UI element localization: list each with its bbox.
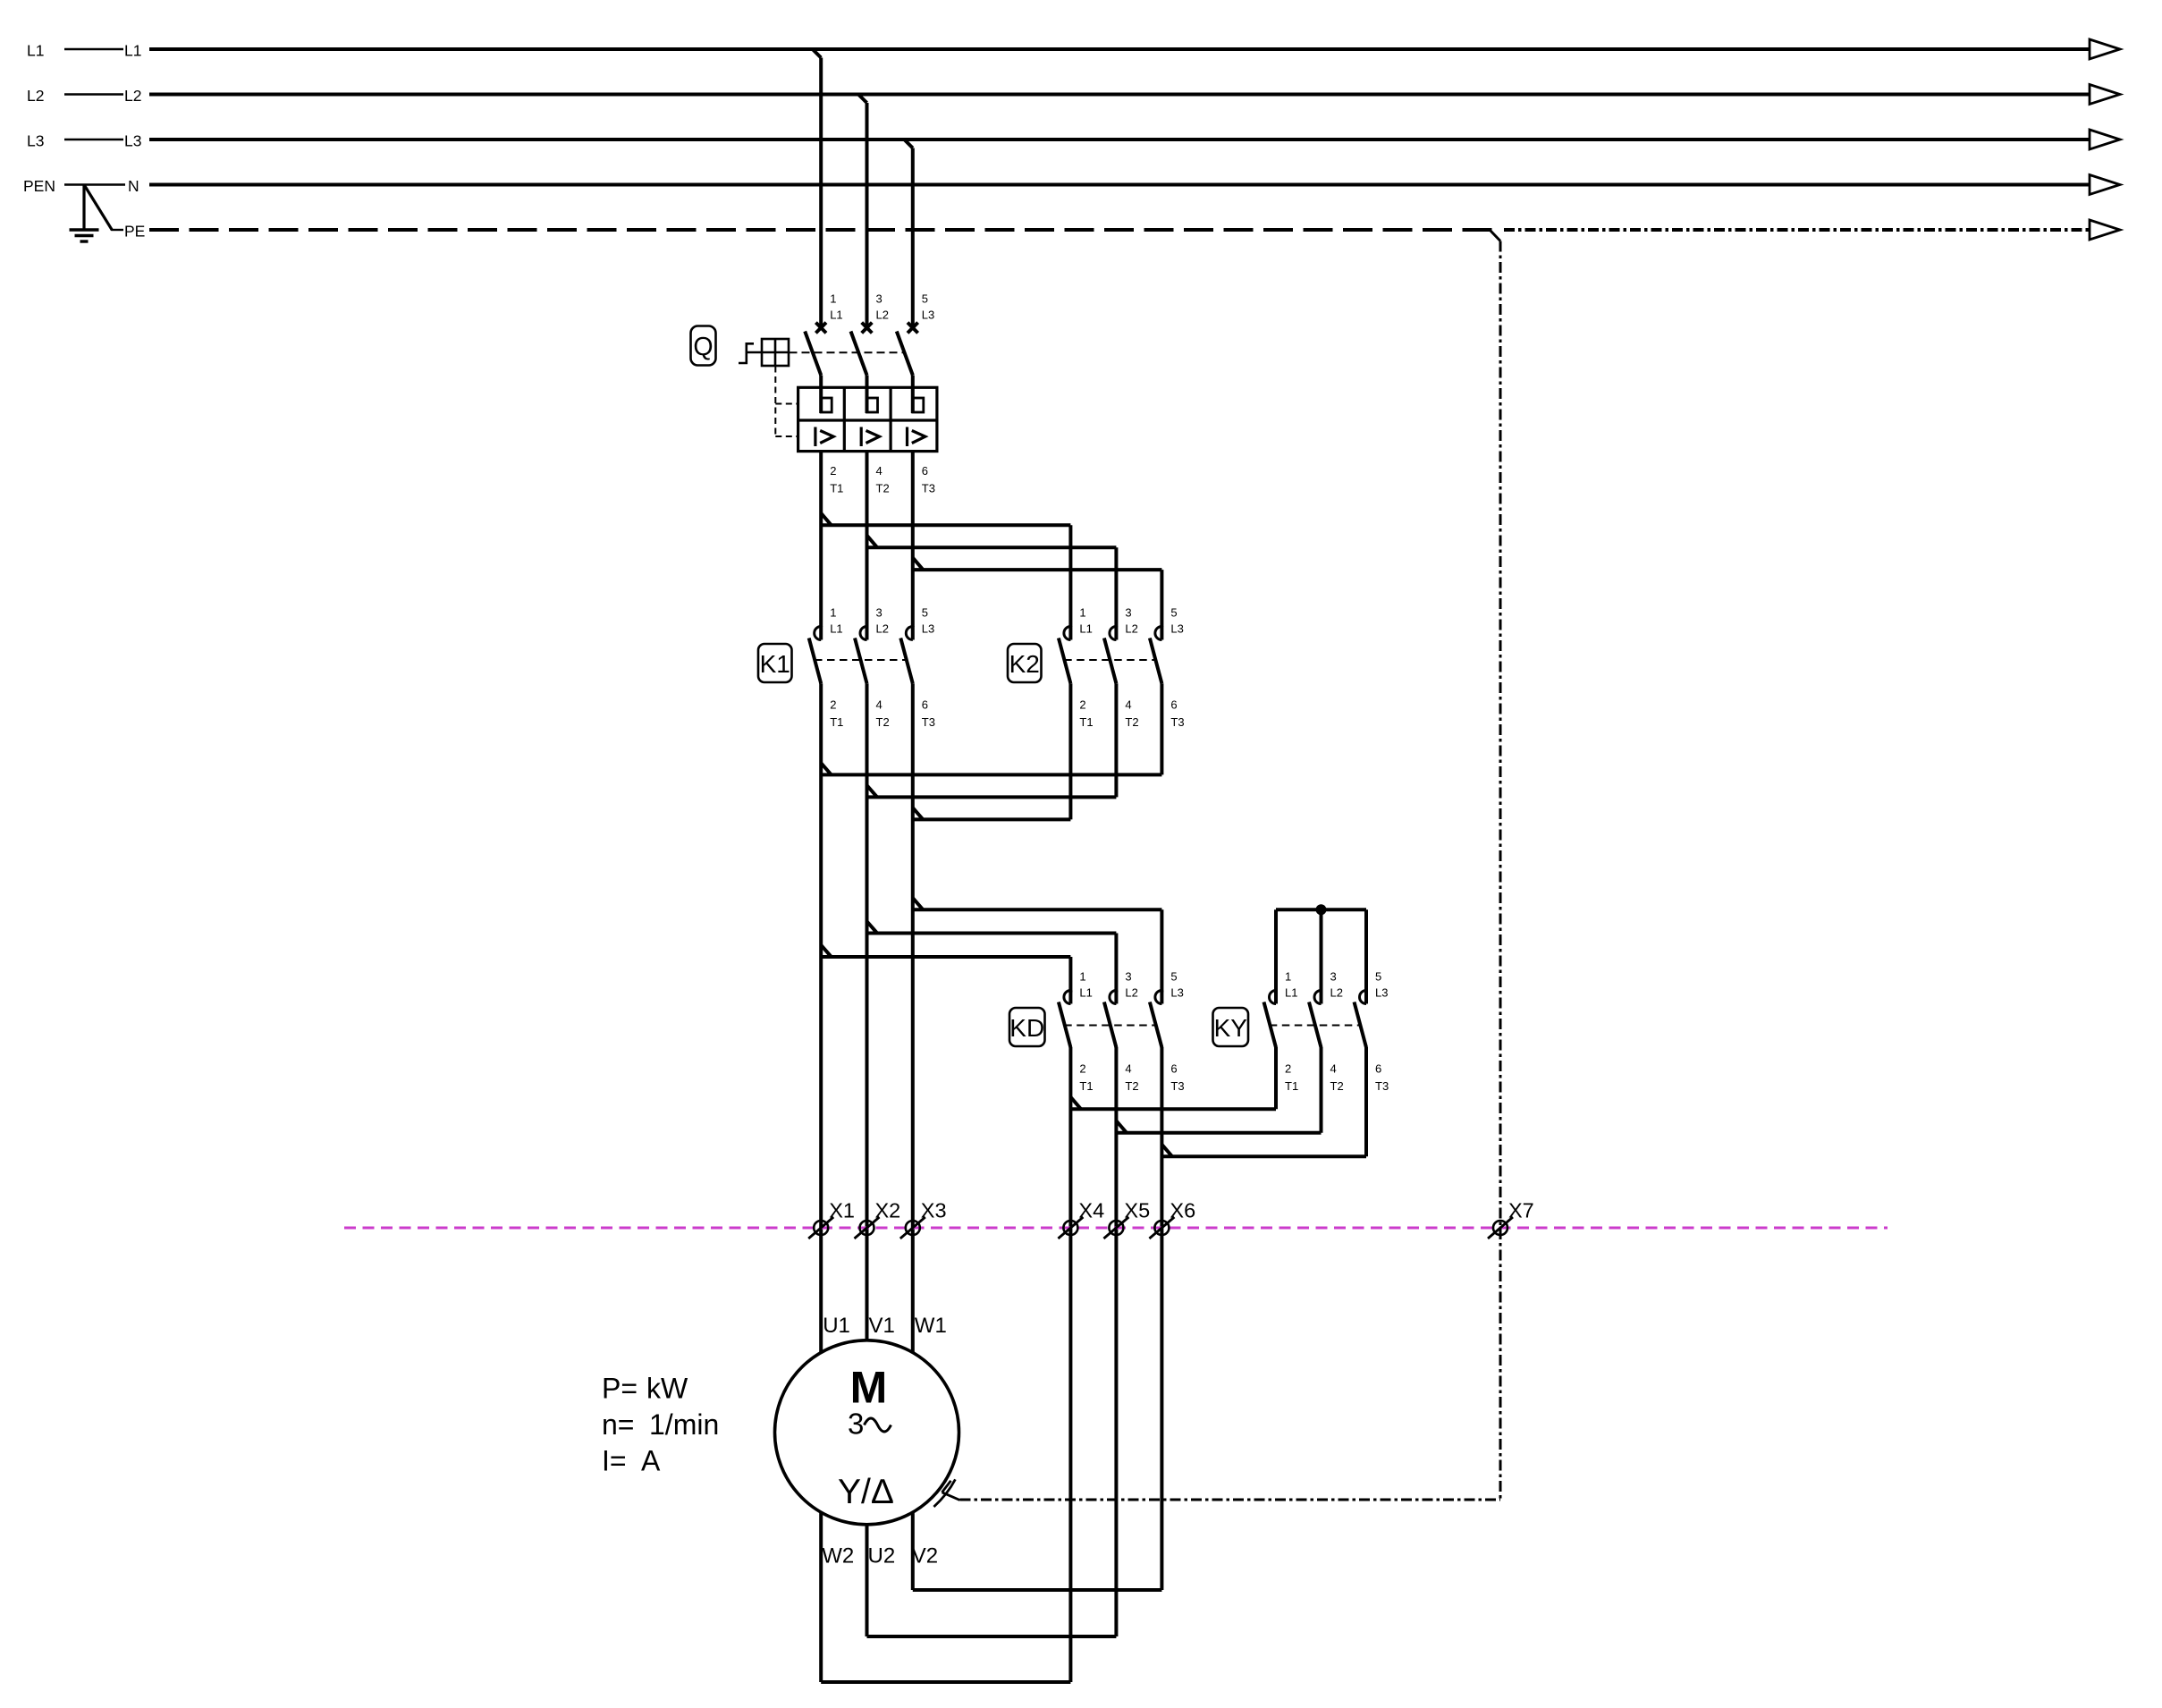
motor terminal labels bottom: [822, 1544, 938, 1568]
svg-text:1: 1: [1079, 606, 1085, 620]
svg-text:4: 4: [1330, 1062, 1337, 1076]
svg-text:3: 3: [1125, 970, 1131, 984]
svg-text:L2: L2: [1125, 986, 1137, 1000]
svg-text:T3: T3: [922, 715, 935, 729]
wire motor W2 to X4: [821, 1512, 1070, 1682]
svg-text:T1: T1: [830, 482, 843, 495]
svg-text:L1: L1: [830, 309, 842, 322]
svg-text:6: 6: [1170, 1062, 1177, 1076]
svg-text:T2: T2: [1125, 715, 1138, 729]
KY linkage (dashed): [1270, 1025, 1361, 1027]
wire Q T1 output down to K1: [819, 452, 823, 627]
svg-text:L1: L1: [124, 42, 141, 60]
svg-text:3: 3: [876, 292, 883, 306]
K1 pole 3 contact: [900, 606, 935, 730]
svg-text:6: 6: [1170, 698, 1177, 712]
svg-text:T3: T3: [1170, 1079, 1184, 1093]
terminal X4: [1058, 1199, 1104, 1239]
svg-text:4: 4: [876, 698, 883, 712]
terminal X1: [808, 1199, 855, 1239]
wire KD T2 down to X5: [1114, 1047, 1118, 1636]
KD pole 3 contact: [1150, 970, 1185, 1094]
svg-text:T1: T1: [1079, 1079, 1093, 1093]
KD pole 1 contact: [1059, 970, 1094, 1094]
svg-text:3: 3: [1330, 970, 1337, 984]
wire K1 T2 down (motor V1 feed): [866, 683, 869, 1340]
wire branch to K2 L1: [821, 513, 1070, 627]
svg-text:T3: T3: [922, 482, 935, 495]
wire branch phase 2 to KD L2: [867, 921, 1117, 992]
KY pole 2 contact: [1309, 970, 1344, 1094]
svg-text:T2: T2: [876, 715, 890, 729]
svg-text:L3: L3: [1170, 622, 1183, 636]
Q magnetic trip I> pole 2: [861, 427, 879, 447]
wire K1 T2 to K2 output join: [867, 683, 1117, 797]
Q pole L2 switch contact: [851, 292, 890, 495]
svg-text:2: 2: [1079, 1062, 1085, 1076]
svg-text:KY: KY: [1214, 1014, 1248, 1042]
svg-text:T1: T1: [1079, 715, 1093, 729]
KY pole 3 contact: [1355, 970, 1389, 1094]
wire PE to motor frame (dash-dot): [960, 1499, 1501, 1501]
svg-text:Y/Δ: Y/Δ: [838, 1473, 894, 1511]
svg-text:1: 1: [830, 292, 836, 306]
svg-text:n=: n=: [602, 1408, 634, 1441]
svg-text:L1: L1: [1079, 622, 1092, 636]
svg-text:6: 6: [922, 464, 928, 478]
svg-text:L1: L1: [27, 42, 44, 60]
motor frame earth connection: [933, 1479, 959, 1507]
wire K1 T3 to K2 output join: [913, 683, 1071, 819]
svg-text:T1: T1: [830, 715, 843, 729]
contactor K2 label: [1008, 644, 1042, 682]
svg-text:5: 5: [922, 292, 928, 306]
svg-text:3: 3: [1125, 606, 1131, 620]
svg-text:L2: L2: [1330, 986, 1343, 1000]
wire L3 rail: [27, 130, 2120, 150]
KD linkage (dashed): [1064, 1025, 1156, 1027]
wire K1 T1 to K2 output join: [821, 683, 1161, 774]
svg-text:kW: kW: [646, 1373, 688, 1405]
wire L3 drop to Q: [904, 140, 913, 328]
KY pole 1 contact: [1264, 970, 1299, 1094]
Q magnetic trip I> pole 1: [815, 427, 833, 447]
K2 pole 1 contact: [1059, 606, 1094, 730]
svg-text:6: 6: [922, 698, 928, 712]
svg-text:L1: L1: [830, 622, 842, 636]
svg-text:P=: P=: [602, 1373, 638, 1405]
svg-text:KD: KD: [1009, 1014, 1044, 1042]
svg-text:U2: U2: [868, 1544, 896, 1568]
svg-text:N: N: [128, 177, 139, 195]
Q thermal overload element pole 2: [867, 387, 878, 413]
wire KD T3 down to X6: [1160, 1047, 1163, 1590]
svg-text:Q: Q: [693, 333, 713, 361]
wire KD T1 down to X4: [1068, 1047, 1072, 1682]
Q mechanical linkage (dashed): [775, 352, 905, 436]
svg-text:2: 2: [830, 698, 836, 712]
svg-text:T3: T3: [1375, 1079, 1389, 1093]
svg-text:5: 5: [1375, 970, 1381, 984]
svg-text:L3: L3: [1170, 986, 1183, 1000]
wire K1 T1 down (motor U1 feed): [819, 683, 823, 1352]
K2 pole 3 contact: [1150, 606, 1185, 730]
wire PE branch to X7 (dash-dot): [1491, 231, 1500, 1500]
svg-text:T2: T2: [1330, 1079, 1344, 1093]
svg-text:L3: L3: [922, 309, 934, 322]
svg-text:A: A: [641, 1445, 661, 1477]
svg-text:L2: L2: [876, 309, 889, 322]
svg-text:V2: V2: [912, 1544, 938, 1568]
wire branch to K2 L2: [867, 536, 1117, 627]
Q overload/trip unit box: [798, 387, 937, 451]
svg-text:L2: L2: [876, 622, 889, 636]
K1 pole 1 contact: [809, 606, 844, 730]
svg-text:L2: L2: [1125, 622, 1137, 636]
svg-text:V1: V1: [869, 1314, 895, 1338]
svg-text:2: 2: [1079, 698, 1085, 712]
svg-text:T3: T3: [1170, 715, 1184, 729]
Q pole L3 switch contact: [897, 292, 935, 495]
svg-text:4: 4: [1125, 698, 1131, 712]
svg-text:K1: K1: [760, 650, 790, 678]
svg-text:2: 2: [830, 464, 836, 478]
svg-text:I=: I=: [602, 1445, 627, 1477]
svg-text:PEN: PEN: [23, 177, 55, 195]
wire branch phase 3 to KD L3: [913, 898, 1162, 992]
wire L2 rail: [27, 85, 2120, 106]
svg-text:U1: U1: [823, 1314, 850, 1338]
Q thermal overload element pole 3: [913, 387, 924, 413]
svg-text:T2: T2: [1125, 1079, 1138, 1093]
svg-text:W2: W2: [822, 1544, 854, 1568]
svg-text:3: 3: [848, 1408, 864, 1441]
wire L1 rail: [27, 39, 2120, 60]
terminal X2: [855, 1199, 901, 1239]
wire PE rail: [112, 220, 2120, 241]
wire branch to K2 L3: [913, 558, 1162, 627]
svg-text:5: 5: [922, 606, 928, 620]
svg-text:L3: L3: [1375, 986, 1388, 1000]
K2 linkage (dashed): [1064, 659, 1156, 661]
svg-text:L1: L1: [1285, 986, 1297, 1000]
KD pole 2 contact: [1104, 970, 1139, 1094]
terminal X6: [1149, 1199, 1195, 1239]
wire L1 drop to Q: [813, 49, 822, 328]
svg-text:PE: PE: [124, 223, 145, 241]
terminal X7: [1488, 1199, 1534, 1239]
motor rating text block: [602, 1373, 719, 1477]
Q magnetic trip I> pole 3: [908, 427, 925, 447]
svg-text:4: 4: [1125, 1062, 1131, 1076]
svg-text:L3: L3: [922, 622, 934, 636]
svg-text:1/min: 1/min: [649, 1408, 719, 1441]
svg-text:1: 1: [1079, 970, 1085, 984]
wire branch phase 1 to KD L1: [821, 945, 1070, 993]
svg-text:M: M: [850, 1363, 888, 1413]
svg-text:2: 2: [1285, 1062, 1291, 1076]
wire N rail: [23, 175, 2120, 196]
contactor KD label: [1009, 1008, 1045, 1046]
svg-text:1: 1: [1285, 970, 1291, 984]
wire KD T3 to KY T3: [1161, 1047, 1366, 1156]
terminal X5: [1103, 1199, 1150, 1239]
svg-text:L2: L2: [27, 87, 44, 105]
motor terminal labels top: [823, 1314, 947, 1338]
contactor K1 label: [758, 644, 792, 682]
wire KY star-point bus: [1276, 909, 1366, 992]
circuit breaker Q label: [691, 326, 716, 366]
wire K1 T3 down (motor W1 feed): [911, 683, 915, 1352]
wire KD T1 to KY T1: [1070, 1047, 1276, 1109]
wire Q T2 output down to K1: [866, 452, 869, 627]
contactor KY label: [1213, 1008, 1249, 1046]
node star junction dot: [1316, 904, 1327, 915]
svg-text:L3: L3: [124, 132, 141, 150]
svg-text:T1: T1: [1285, 1079, 1298, 1093]
wire motor V2 to X6: [913, 1512, 1162, 1590]
svg-text:4: 4: [876, 464, 883, 478]
svg-text:T2: T2: [876, 482, 890, 495]
svg-text:5: 5: [1170, 970, 1177, 984]
boundary line (magenta dashed): [344, 1227, 1888, 1230]
Q manual actuator: [739, 339, 789, 366]
ground symbol on PEN: [70, 185, 113, 242]
K1 linkage (dashed): [815, 659, 908, 661]
K1 pole 2 contact: [855, 606, 890, 730]
K2 pole 2 contact: [1104, 606, 1139, 730]
wire motor U2 to X5: [867, 1525, 1117, 1636]
Q pole L1 switch contact: [805, 292, 843, 495]
svg-text:K2: K2: [1009, 650, 1040, 678]
svg-text:3: 3: [876, 606, 883, 620]
svg-text:W1: W1: [915, 1314, 947, 1338]
wire Q T3 output down to K1: [911, 452, 915, 627]
terminal X3: [900, 1199, 947, 1239]
svg-text:L1: L1: [1079, 986, 1092, 1000]
svg-text:L2: L2: [124, 87, 141, 105]
wire KD T2 to KY T2: [1116, 1047, 1321, 1133]
svg-text:6: 6: [1375, 1062, 1381, 1076]
wire L2 drop to Q: [858, 95, 867, 328]
svg-text:5: 5: [1170, 606, 1177, 620]
svg-text:1: 1: [830, 606, 836, 620]
svg-text:L3: L3: [27, 132, 44, 150]
motor M 3~ Y/Δ: [775, 1340, 959, 1525]
Q thermal overload element pole 1: [821, 387, 832, 413]
